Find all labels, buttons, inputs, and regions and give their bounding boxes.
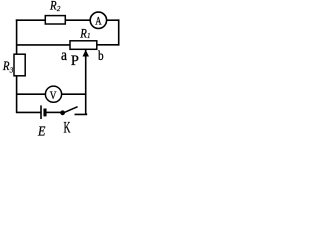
battery E long plate (positive) <box>40 105 42 119</box>
battery E short thick plate (negative) <box>43 109 46 117</box>
wire battery to switch dot <box>46 111 62 113</box>
voltmeter V <box>45 86 61 102</box>
wire left vertical (from R3 down to bottom-left corner) <box>16 75 18 113</box>
rheostat R1 body <box>70 41 97 50</box>
svg-text:R: R <box>79 26 87 40</box>
svg-text:P: P <box>71 53 79 69</box>
svg-text:K: K <box>64 120 71 136</box>
svg-text:R: R <box>49 0 57 13</box>
resistor R3 (left vertical) <box>14 54 25 76</box>
wire top-left horizontal (top wire from left corner to R2) <box>17 18 46 21</box>
ammeter A <box>90 12 106 28</box>
slider P arrow (wiper of rheostat) <box>83 50 90 57</box>
wire top-right from ammeter to corner <box>106 19 120 21</box>
svg-text:1: 1 <box>87 32 91 40</box>
svg-text:A: A <box>95 13 102 27</box>
svg-text:3: 3 <box>9 67 14 75</box>
wire bottom horizontal (bottom-left corner to battery) <box>16 111 41 113</box>
wire left vertical (from top-left corner down to R3) <box>16 19 18 55</box>
wire top between R2 and ammeter <box>65 19 91 21</box>
wire right vertical (ammeter corner down to rheostat level) <box>118 19 120 45</box>
wire from right corner to rheostat right terminal b <box>97 44 120 46</box>
label R2 <box>49 0 61 13</box>
svg-text:2: 2 <box>57 5 61 13</box>
svg-text:R: R <box>2 59 10 73</box>
svg-text:E: E <box>37 125 46 136</box>
svg-text:a: a <box>61 47 67 64</box>
wire switch fixed-contact stub to bottom-right corner <box>75 113 87 114</box>
label R3 <box>2 59 14 74</box>
label R1 <box>79 26 90 40</box>
switch K blade (open) <box>63 107 78 114</box>
wire voltmeter branch right (voltmeter to slider wire) <box>62 93 87 95</box>
switch K pivot dot <box>60 110 65 115</box>
resistor R2 (top) <box>45 16 65 24</box>
wire middle horizontal (junction on left wire to rheostat left terminal a) <box>16 44 70 46</box>
svg-text:b: b <box>98 49 104 64</box>
wire slider vertical (from slider P down past voltmeter branch to switch stub) <box>85 50 87 115</box>
wire voltmeter branch left (junction to voltmeter) <box>16 93 46 95</box>
svg-text:V: V <box>50 88 57 102</box>
